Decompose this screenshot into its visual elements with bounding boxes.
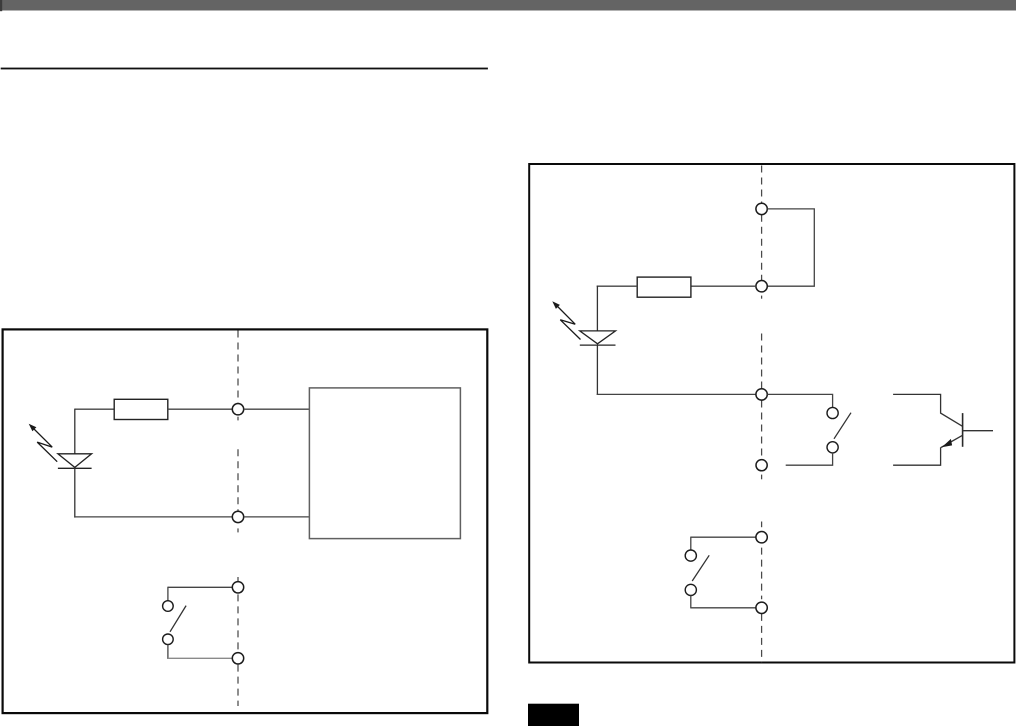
switch S2 blade — [834, 413, 851, 439]
node terminal A (right fig, top) — [756, 203, 767, 214]
node terminal 3 (left fig) — [232, 582, 243, 593]
node terminal 1 (left fig) — [232, 404, 243, 415]
switch S2 lower contact — [827, 442, 838, 453]
LED D1 cathode wire down — [74, 468, 76, 517]
dashed centerline (right, upper) — [761, 166, 763, 480]
LED D2 cathode bar — [580, 344, 616, 346]
LED D1 emission arrow — [29, 424, 58, 462]
wire: node 1 to receiver box — [244, 408, 310, 410]
switch S3 bottom drop wire — [690, 596, 692, 609]
LED D2 emission arrow — [552, 301, 580, 339]
switch S3 lower contact — [685, 584, 696, 595]
switch S3 left drop wire — [690, 537, 692, 551]
phototransistor Q1 base lead — [963, 430, 993, 432]
title underline — [1, 68, 488, 70]
dashed centerline (left, upper) — [237, 331, 239, 533]
receiver module box — [309, 388, 460, 539]
header bar — [0, 0, 1016, 11]
LED D2 cathode wire down — [596, 345, 598, 395]
wire: node C to switch S2 — [767, 394, 832, 407]
dashed centerline (right, lower) — [761, 522, 763, 663]
LED D2 anode wire — [596, 286, 598, 331]
node terminal E (right fig) — [756, 532, 767, 543]
figure border box (left) — [3, 329, 488, 713]
node terminal C (right fig) — [756, 389, 767, 400]
phototransistor Q1 emitter wire — [893, 447, 941, 465]
wire: LED bottom to node 2 — [74, 516, 232, 518]
wire: switch S2 down and left — [786, 453, 833, 465]
resistor R2 — [637, 277, 691, 297]
switch S1 upper contact — [163, 601, 174, 612]
resistor R1 — [114, 399, 168, 419]
switch S1 left drop wire — [167, 587, 169, 601]
phototransistor Q1 collector wire — [893, 394, 962, 426]
node terminal D (right fig) — [756, 460, 767, 471]
switch S1 top wire — [168, 586, 232, 588]
page footer tab — [528, 704, 579, 726]
switch S3 upper contact — [685, 550, 696, 561]
figure border box (right) — [529, 164, 1014, 663]
switch S1 bottom drop wire — [167, 645, 169, 659]
switch S1 blade — [170, 606, 186, 632]
LED D1 cathode bar — [58, 467, 92, 469]
wire: node 2 to receiver box — [244, 516, 310, 518]
LED D1 triangle — [58, 454, 92, 468]
node terminal B (right fig) — [756, 281, 767, 292]
wire: node B to resistor — [691, 285, 756, 287]
phototransistor Q1 emitter with arrow — [941, 435, 962, 447]
LED D2 triangle — [580, 331, 616, 344]
phototransistor Q1 base bar — [962, 413, 964, 447]
wire: resistor to node 1 — [168, 408, 233, 410]
wire: LED bottom to node C — [597, 393, 756, 395]
switch S2 upper contact — [827, 407, 838, 418]
switch S3 blade — [692, 555, 709, 581]
switch S3 top wire — [691, 536, 756, 538]
wire: node A jumper right and down — [767, 209, 814, 286]
node terminal 4 (left fig) — [232, 653, 243, 664]
switch S1 bottom wire — [168, 657, 232, 659]
dashed centerline (left, lower) — [237, 577, 239, 706]
node terminal 2 (left fig) — [232, 511, 243, 522]
switch S1 lower contact — [163, 634, 174, 645]
wire: LED top to resistor — [75, 408, 114, 410]
node terminal F (right fig) — [756, 602, 767, 613]
LED D1 vertical anode wire — [74, 409, 76, 454]
wire: resistor to LED top — [597, 285, 638, 287]
switch S3 bottom wire — [691, 607, 756, 609]
